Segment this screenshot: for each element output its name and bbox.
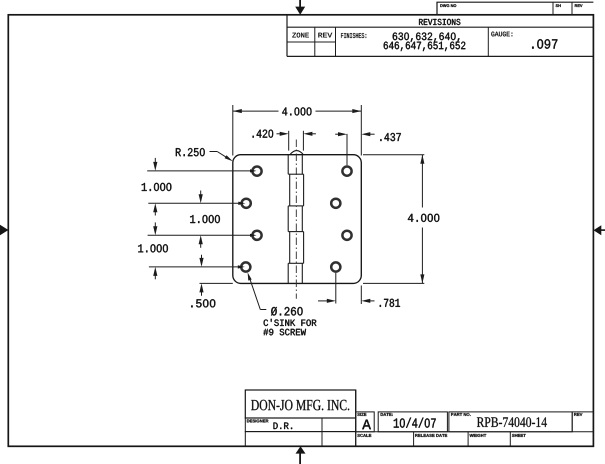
dim 4.000 top line bbox=[233, 110, 279, 112]
dim .781 left arrow bbox=[318, 300, 328, 302]
csink dia text bbox=[271, 307, 303, 316]
scale row divider1 bbox=[413, 432, 415, 447]
pin centerline bbox=[295, 140, 297, 299]
hole H6 countersunk bbox=[331, 199, 340, 208]
top center zone marker bbox=[299, 0, 301, 7]
dwg-no label bbox=[440, 4, 456, 7]
size label bbox=[357, 413, 366, 416]
knuckle division 1 bbox=[288, 173, 303, 175]
dim .420 right arrow bbox=[303, 132, 312, 136]
zone/rev divider bbox=[314, 27, 316, 56]
date cell box bbox=[378, 412, 447, 432]
sheet label bbox=[512, 434, 526, 437]
dim .781 right arrow bbox=[361, 299, 370, 303]
hole H8 countersunk bbox=[331, 262, 340, 271]
designer label bbox=[247, 420, 269, 423]
sh label bbox=[556, 4, 561, 7]
scale row divider2 bbox=[467, 432, 469, 447]
designer divider bbox=[321, 418, 323, 446]
date value bbox=[394, 418, 436, 428]
dim 1.000 c arrows bbox=[154, 222, 156, 227]
hole H5 countersunk bbox=[342, 167, 351, 176]
dim 1.000 b text bbox=[190, 215, 220, 223]
dim .781 text bbox=[380, 299, 400, 307]
finishes/gauge divider bbox=[487, 27, 489, 56]
finishes values line2 bbox=[384, 42, 466, 52]
release date label bbox=[415, 434, 447, 437]
size col left edge bbox=[355, 390, 357, 446]
date label bbox=[381, 413, 393, 416]
hole H3 countersunk bbox=[252, 231, 261, 240]
hole line 3 bbox=[148, 234, 251, 236]
zone label bbox=[292, 33, 309, 38]
extension line hinge left edge up bbox=[232, 105, 234, 156]
dim 4.000 right arrows bbox=[420, 155, 424, 164]
bottom edge extension left bbox=[200, 282, 233, 284]
finishes values line1 bbox=[393, 33, 460, 43]
right center zone marker bbox=[601, 229, 605, 231]
rev cell lines bbox=[571, 412, 573, 432]
part no label bbox=[451, 413, 471, 416]
designer row box bbox=[245, 418, 355, 432]
zone-rev mid line bbox=[287, 41, 336, 43]
hinge leaf outline bbox=[233, 155, 361, 284]
dim 1.000 b arrows bbox=[200, 191, 202, 196]
knuckle division 4 bbox=[288, 262, 303, 264]
bottom center zone marker bbox=[299, 453, 301, 464]
hole H4 countersunk bbox=[241, 262, 250, 271]
dwg-no strip box bbox=[437, 2, 593, 15]
part number bbox=[477, 417, 547, 427]
dim 1.000 a text bbox=[142, 183, 172, 191]
extension line hinge right edge up bbox=[360, 105, 362, 156]
knuckle division 3 bbox=[288, 231, 303, 233]
designer initials bbox=[274, 423, 293, 430]
company name bbox=[251, 400, 349, 411]
knuckle seg2 (right leaf) bbox=[289, 174, 291, 206]
dim 4.000 top arrows bbox=[233, 109, 242, 113]
hole H1 countersunk bbox=[252, 167, 261, 176]
rev/finishes divider bbox=[335, 27, 337, 56]
hole H7 countersunk bbox=[342, 231, 351, 240]
left center zone marker bbox=[0, 225, 8, 235]
dim 4.000 right text bbox=[408, 214, 439, 222]
rev label top strip bbox=[575, 4, 583, 7]
dim 4.000 right line bbox=[421, 155, 423, 208]
size value A bbox=[362, 420, 371, 430]
ext line right hole column up bbox=[346, 134, 348, 165]
knuckle division 2 bbox=[288, 205, 303, 207]
scale row line bbox=[356, 431, 594, 433]
csink leader bbox=[249, 277, 260, 310]
ext line bottom edge right bbox=[363, 282, 424, 284]
revisions block left edge bbox=[286, 15, 288, 57]
radius R.250 text bbox=[176, 148, 205, 156]
size cell box bbox=[356, 412, 375, 432]
dim .500 text bbox=[191, 299, 215, 307]
gauge label bbox=[491, 32, 512, 37]
radius leader bbox=[210, 151, 218, 153]
hole line 1 bbox=[147, 170, 251, 172]
hole H2 countersunk bbox=[242, 199, 251, 208]
rev label bbox=[318, 33, 332, 38]
ext line barrel left bbox=[288, 131, 290, 151]
knuckle seg3 (left leaf) bbox=[287, 206, 289, 232]
knuckle seg1 (left leaf) bbox=[287, 155, 289, 175]
finishes label bbox=[341, 33, 366, 38]
knuckle seg4 (right leaf) bbox=[289, 232, 291, 264]
revisions block bottom line bbox=[287, 55, 593, 57]
csink line3 bbox=[263, 329, 306, 336]
scale row divider3 bbox=[509, 432, 511, 447]
dim .437 left arrow bbox=[335, 133, 338, 135]
weight label bbox=[470, 434, 487, 437]
dim 4.000 top text bbox=[282, 107, 311, 115]
knuckle seg5 (left leaf) bbox=[287, 263, 289, 283]
revisions title bbox=[419, 19, 460, 25]
hole line 2 bbox=[148, 202, 240, 204]
dim 1.000 a arrows bbox=[154, 158, 156, 164]
part cell box bbox=[449, 412, 572, 432]
revisions header underline bbox=[287, 26, 593, 28]
ext line right hole column down bbox=[335, 273, 337, 304]
hole line 4 bbox=[149, 266, 240, 268]
dim .437 right arrow bbox=[361, 132, 370, 136]
rev label title block bbox=[574, 413, 582, 416]
dim 1.000 c text bbox=[138, 244, 168, 252]
gauge value bbox=[532, 39, 557, 49]
scale label bbox=[357, 434, 371, 437]
csink line2 bbox=[264, 319, 317, 326]
dim .420 text bbox=[253, 130, 274, 138]
ext line right edge down bbox=[360, 286, 362, 305]
dim .500 arrows bbox=[201, 255, 203, 260]
dim .420 leader bbox=[277, 133, 281, 135]
company box bbox=[245, 390, 355, 418]
pin tip dome bbox=[290, 151, 304, 155]
ext line top edge right bbox=[363, 154, 424, 156]
dim .437 text bbox=[380, 133, 400, 141]
designer row empty box bbox=[245, 432, 355, 447]
ext line barrel right bbox=[302, 131, 304, 151]
